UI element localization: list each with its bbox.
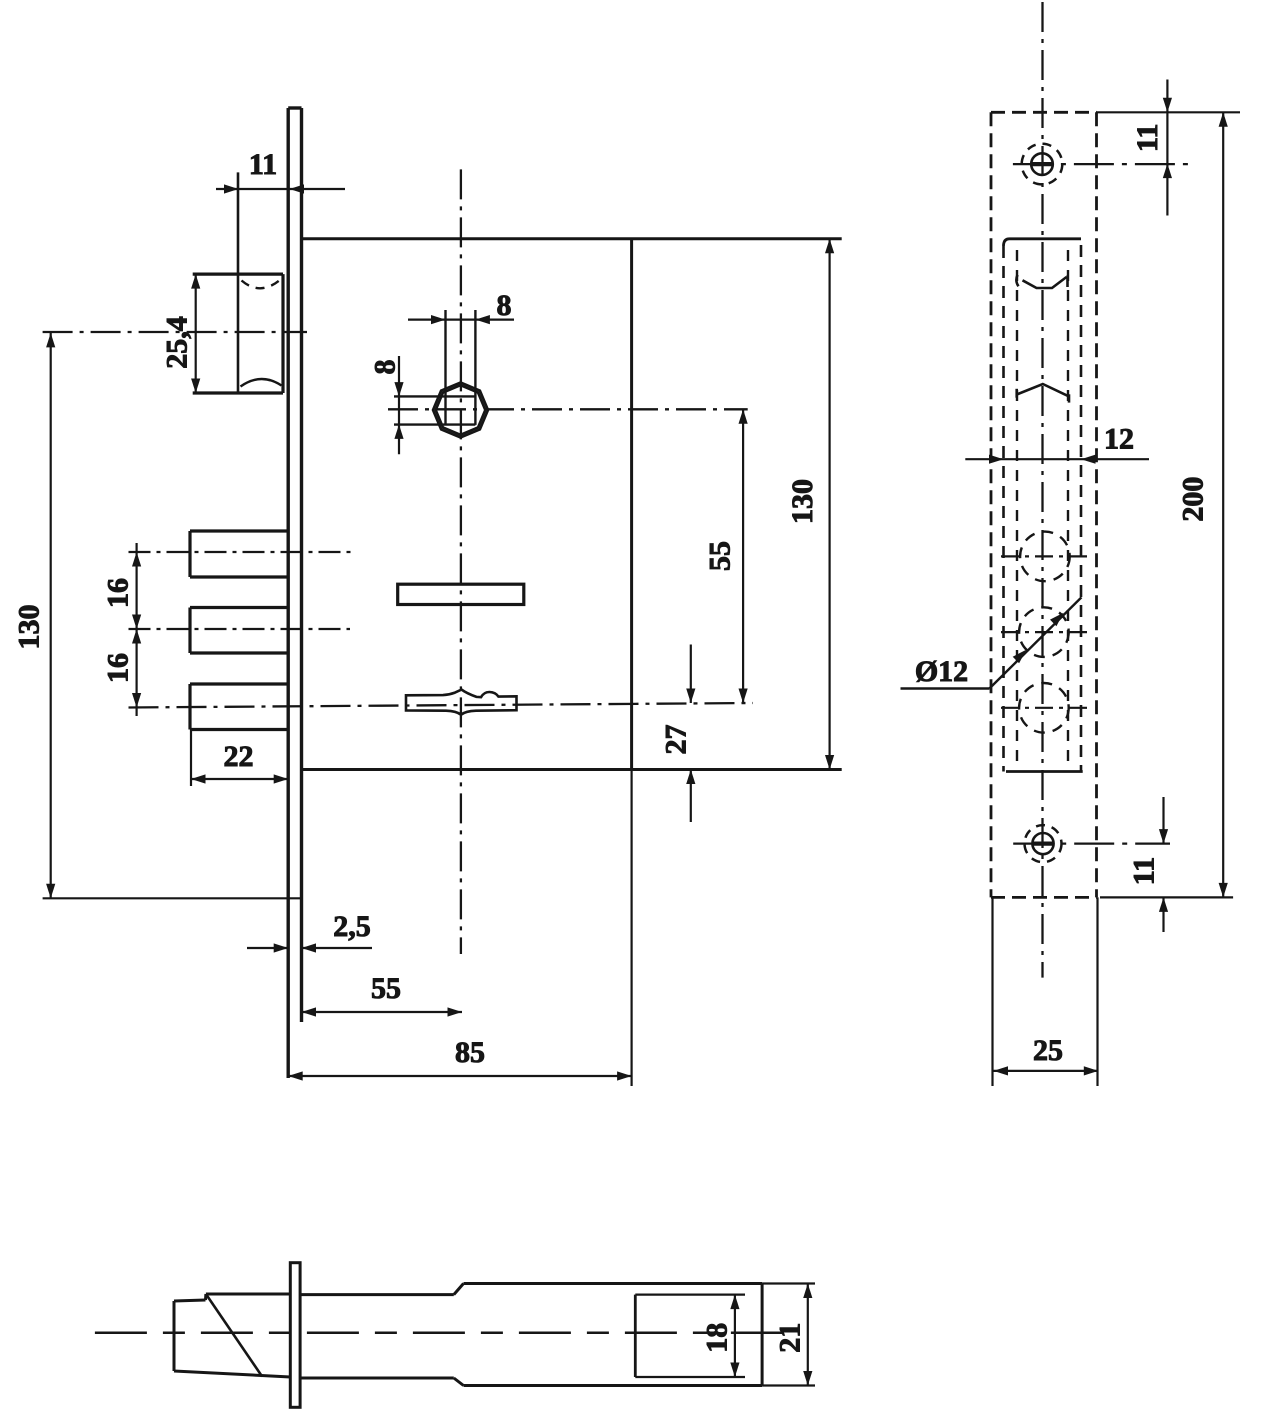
- dim 21: [774, 1284, 813, 1386]
- svg-text:11: 11: [1128, 857, 1161, 885]
- dim 200: [1177, 112, 1228, 897]
- deadbolt pin 1: [190, 531, 288, 577]
- svg-text:11: 11: [1131, 124, 1164, 152]
- svg-text:55: 55: [704, 541, 737, 571]
- deadbolt pin 3 / keyhole centerline: [129, 703, 754, 708]
- deadbolt pin 1 centerline: [129, 551, 357, 553]
- dim 11 (latch protrusion): [216, 148, 345, 194]
- dim 55 right: [704, 409, 748, 703]
- svg-text:16: 16: [102, 578, 135, 608]
- svg-text:8: 8: [369, 360, 402, 375]
- main vertical centerline: [460, 169, 462, 954]
- svg-text:22: 22: [224, 740, 254, 773]
- spindle horizontal centerline: [388, 408, 748, 410]
- spindle hole octagon: [433, 383, 488, 438]
- dim 18: [701, 1295, 740, 1377]
- bottom screw hole: [1025, 825, 1062, 862]
- dim 2,5 (plate thickness): [247, 910, 372, 953]
- svg-text:Ø12: Ø12: [915, 655, 968, 688]
- svg-text:25: 25: [1033, 1034, 1063, 1067]
- top screw hole: [1022, 144, 1063, 185]
- dim 8 left (square height): [369, 356, 404, 454]
- latch bolt body side view: [300, 1284, 762, 1386]
- spindle square hole: [394, 310, 475, 425]
- dim 22: [191, 730, 288, 787]
- svg-text:18: 18: [701, 1323, 734, 1353]
- bolt hole 1 centerline: [1001, 555, 1087, 557]
- svg-text:25,4: 25,4: [161, 316, 194, 369]
- dim 12 (recess width): [965, 423, 1149, 464]
- dim 16 upper: [102, 543, 142, 716]
- dim 130 left: [13, 333, 302, 898]
- latch bolt front view: [193, 172, 283, 393]
- deadbolt pocket chevron: [1017, 384, 1069, 403]
- dim 8 top (square width): [408, 289, 514, 324]
- dim 130 right: [786, 239, 834, 770]
- latch pocket chevron top: [1016, 275, 1067, 288]
- dim 55 bottom: [302, 972, 463, 1017]
- top screw hole centerline: [1013, 163, 1190, 165]
- dim 11 top right: [1131, 80, 1172, 216]
- latch channel hidden lines: [1017, 250, 1068, 768]
- svg-text:2,5: 2,5: [333, 910, 371, 943]
- dim 25,4 (latch size): [161, 274, 201, 393]
- strike plate extension lines: [993, 112, 1241, 1086]
- dim 85 bottom: [288, 770, 631, 1087]
- side view extension lines: [635, 1284, 815, 1386]
- svg-text:21: 21: [774, 1323, 807, 1353]
- bolt hole 3 centerline: [1001, 707, 1087, 709]
- faceplate side section: [290, 1263, 300, 1408]
- side view centerline: [95, 1331, 783, 1334]
- svg-text:16: 16: [102, 653, 135, 683]
- strike plate centerline: [1041, 2, 1043, 978]
- svg-text:12: 12: [1104, 423, 1134, 456]
- dim 11 bottom right: [1128, 797, 1169, 932]
- lock body outline: [302, 239, 842, 770]
- deadbolt pin 3: [190, 684, 288, 730]
- keyhole (bit key slot): [406, 690, 517, 715]
- svg-text:130: 130: [786, 479, 819, 524]
- faceplate front view: [288, 108, 301, 1078]
- svg-text:8: 8: [497, 289, 512, 322]
- latch centerline: [43, 331, 307, 333]
- deadbolt pin 2: [190, 608, 288, 654]
- strike plate outline: [991, 112, 1097, 897]
- bolt hole 2 centerline: [1001, 631, 1087, 633]
- bolt hole 3: [1019, 683, 1069, 733]
- svg-text:55: 55: [371, 972, 401, 1005]
- dim 27: [660, 645, 696, 823]
- svg-text:130: 130: [13, 605, 46, 650]
- svg-text:85: 85: [455, 1036, 485, 1069]
- latch bolt head side view: [174, 1294, 290, 1377]
- deadbolt pin 2 centerline: [129, 628, 351, 630]
- leader diameter 12: [901, 597, 1082, 688]
- svg-text:11: 11: [249, 148, 277, 181]
- svg-text:27: 27: [660, 725, 693, 755]
- dim 16 lower: [102, 629, 142, 708]
- bolt hole 2: [1019, 607, 1069, 657]
- svg-text:200: 200: [1177, 477, 1210, 522]
- dim 25 (plate width): [994, 1034, 1099, 1076]
- bolt hole 1: [1020, 532, 1070, 582]
- bottom screw hole centerline: [1013, 842, 1170, 844]
- recess pocket outline: [1004, 239, 1083, 772]
- stop plate rectangle: [398, 584, 524, 604]
